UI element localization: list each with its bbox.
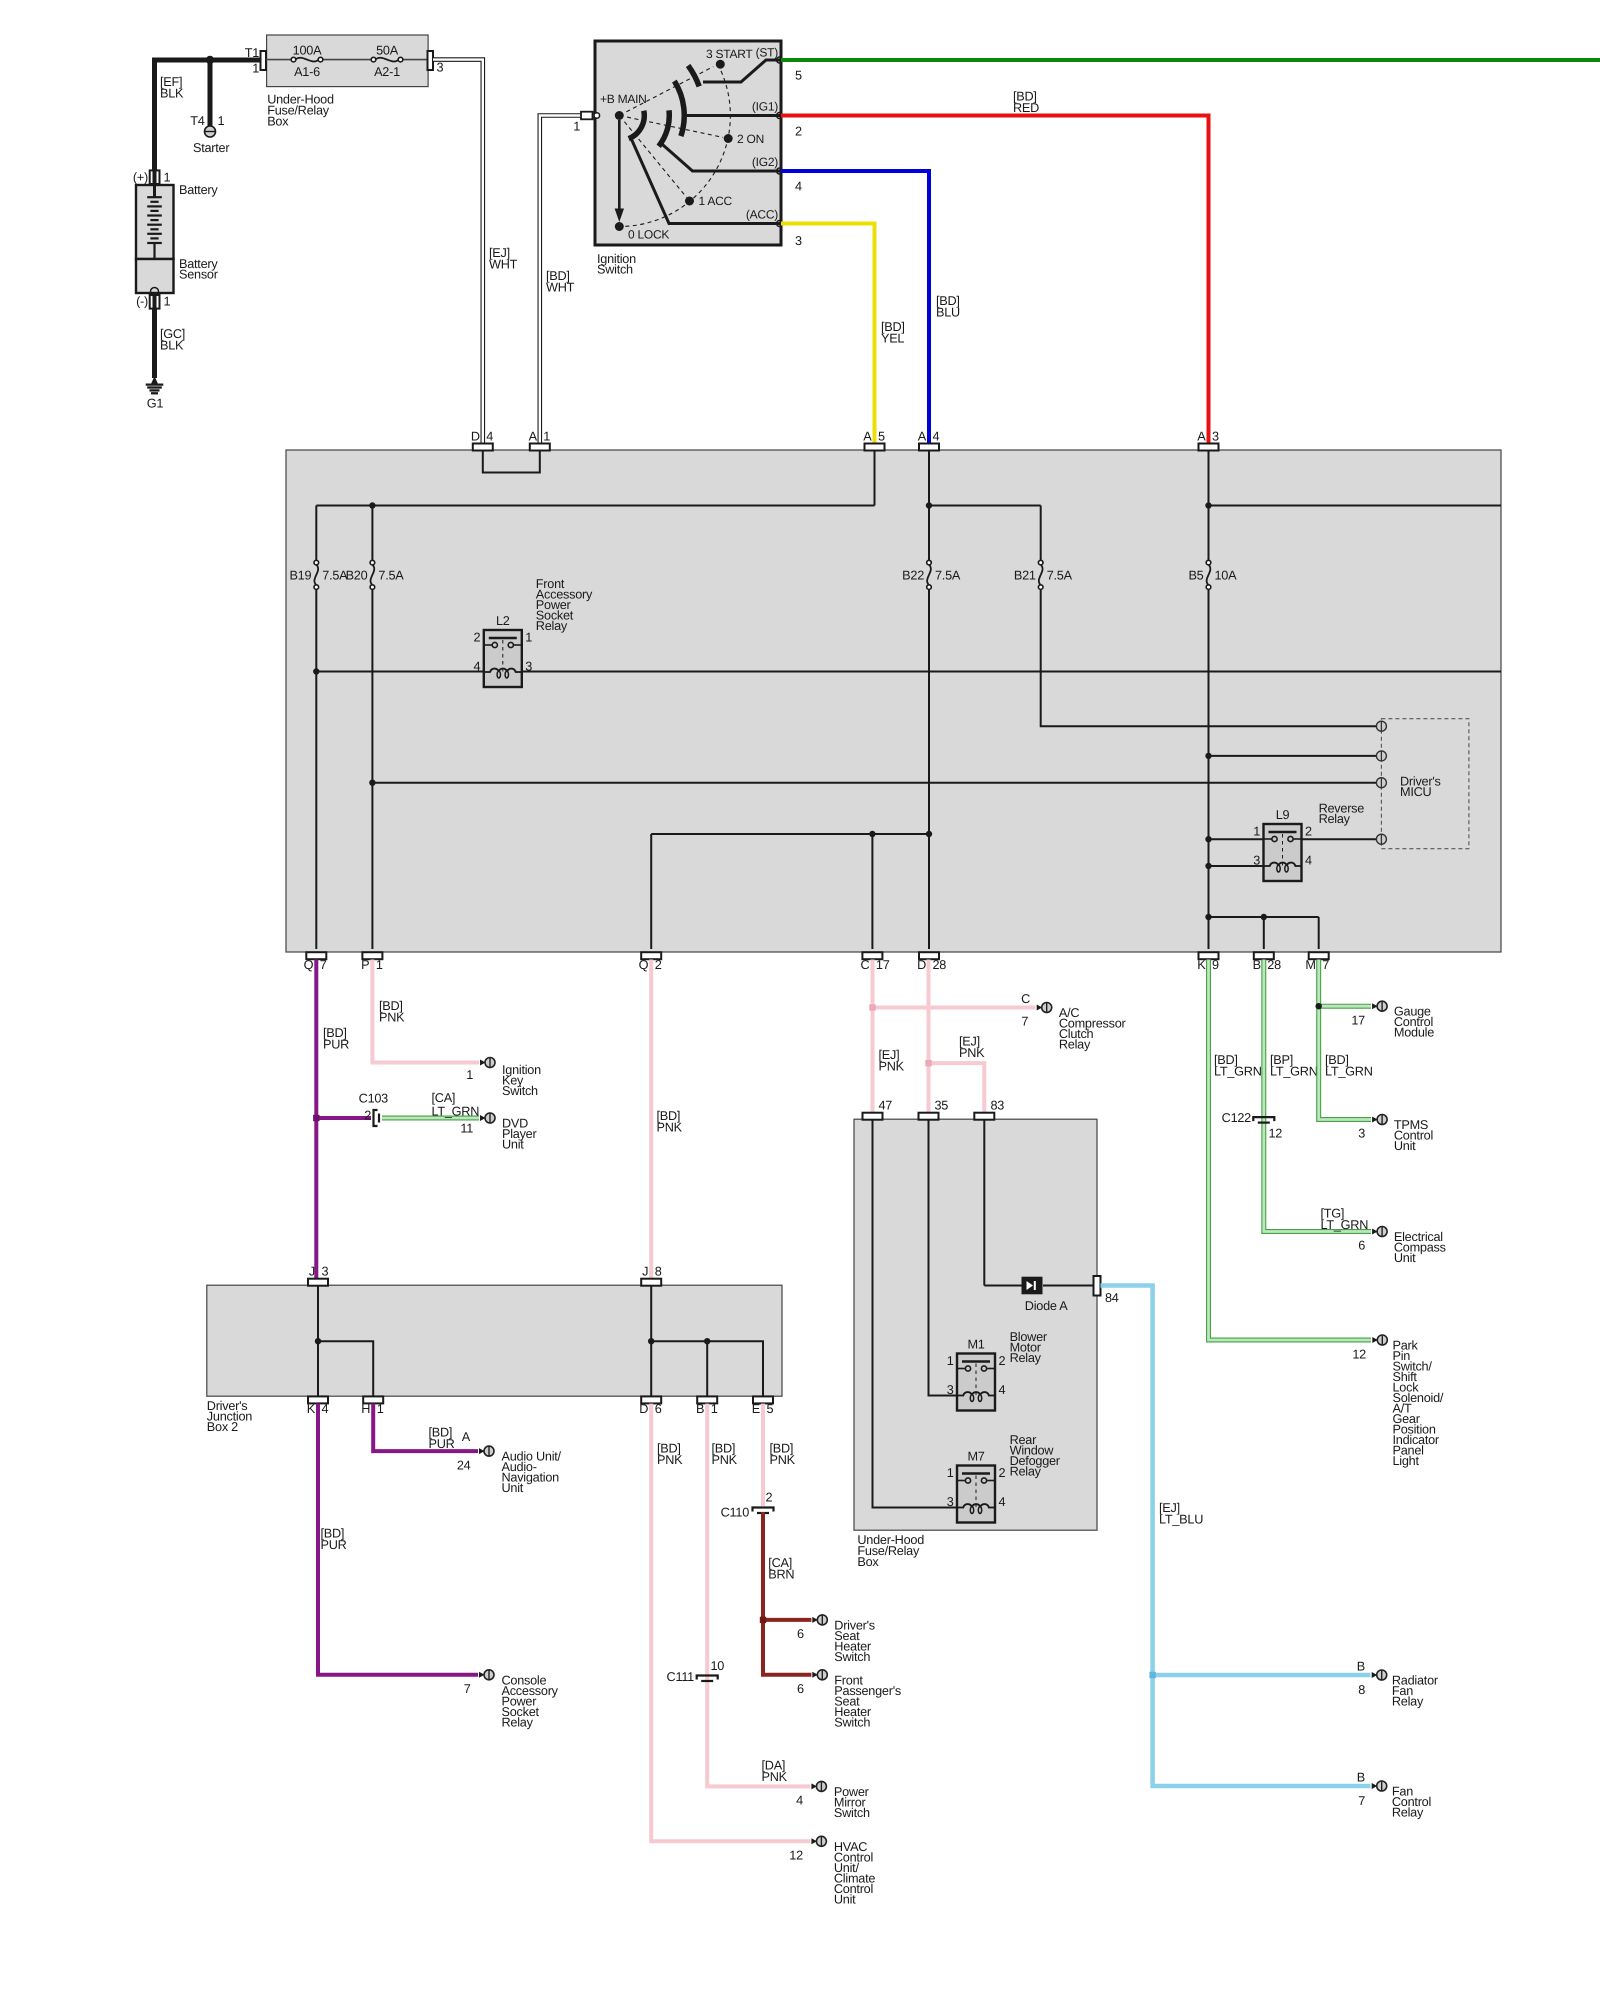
svg-text:(+): (+): [133, 171, 148, 185]
svg-text:5: 5: [795, 69, 802, 83]
svg-text:G1: G1: [147, 397, 164, 411]
svg-text:PNK: PNK: [762, 1770, 788, 1784]
connector B1: [697, 1396, 717, 1403]
wire [BD] PUR from Q7: [314, 960, 318, 1280]
svg-text:1: 1: [711, 1402, 718, 1416]
svg-text:3: 3: [1212, 430, 1219, 444]
svg-text:C110: C110: [721, 1506, 750, 1520]
wiper contact arcs: [629, 111, 645, 139]
svg-text:B: B: [1357, 1771, 1365, 1785]
svg-text:2: 2: [1305, 825, 1312, 839]
node T1 junction: [206, 56, 214, 64]
svg-text:C111: C111: [667, 1670, 695, 1684]
svg-text:7: 7: [1358, 1794, 1365, 1808]
svg-text:Relay: Relay: [536, 619, 568, 633]
fuse B21 7.5A: [1039, 565, 1043, 586]
svg-text:2: 2: [766, 1491, 773, 1505]
svg-text:7.5A: 7.5A: [935, 569, 961, 583]
position 1 ACC: [685, 197, 694, 206]
svg-text:PNK: PNK: [712, 1453, 738, 1467]
svg-text:PNK: PNK: [879, 1060, 905, 1074]
contact line IG2: [661, 143, 780, 171]
fuse B22 7.5A: [927, 565, 931, 586]
wire A5 drop: [874, 451, 876, 506]
connector E5: [753, 1396, 773, 1403]
svg-text:Relay: Relay: [1010, 1351, 1042, 1365]
svg-text:84: 84: [1105, 1291, 1119, 1305]
connector J3: [308, 1279, 328, 1286]
dashed radials: [626, 67, 713, 112]
svg-text:100A: 100A: [293, 44, 322, 58]
wire 83 to diode A: [983, 1120, 985, 1286]
under-hood fuse/relay box A (top): [267, 35, 429, 87]
connector pin 3: [428, 51, 434, 70]
relay M1 blower motor: [957, 1354, 995, 1411]
wire J8 to D6: [650, 1286, 652, 1396]
inline connector C122: [1253, 1117, 1274, 1121]
terminal DVD player unit: [480, 1115, 486, 1121]
wire B20 branch: [371, 506, 373, 561]
fuse B20 7.5A: [371, 565, 375, 586]
svg-text:3: 3: [322, 1265, 329, 1279]
wire [EJ] LT_BLU: [1101, 1286, 1371, 1787]
wire [BP] LT_GRN from B28: [1264, 960, 1371, 1232]
node A4 bus tap: [926, 502, 932, 508]
wire to B1: [706, 1341, 708, 1395]
svg-text:BLK: BLK: [160, 339, 184, 353]
wire [CA] BRN: [763, 1512, 811, 1675]
svg-text:2: 2: [999, 1354, 1006, 1368]
svg-text:Switch: Switch: [834, 1650, 870, 1664]
node B5 MICU tap: [1205, 753, 1211, 759]
wire [BD] PUR from K4 to console relay: [318, 1404, 478, 1675]
relay L2 front accessory power socket: [484, 630, 522, 687]
svg-text:1: 1: [573, 120, 580, 134]
wire A3 drop: [1208, 451, 1210, 560]
wire [BD] BLU pin 4: [781, 171, 929, 444]
svg-text:2 ON: 2 ON: [737, 132, 764, 146]
relay M7 rear window defogger: [957, 1466, 995, 1523]
connector 35: [919, 1113, 939, 1120]
svg-text:LT_GRN: LT_GRN: [1325, 1065, 1373, 1079]
svg-text:A2-1: A2-1: [374, 65, 400, 79]
connector T1: [261, 51, 267, 70]
svg-text:7: 7: [320, 958, 327, 972]
wire [BD] PNK from E5: [761, 1404, 765, 1506]
svg-text:PNK: PNK: [770, 1453, 796, 1467]
svg-text:T1: T1: [245, 46, 260, 60]
svg-text:4: 4: [999, 1383, 1006, 1397]
wire gauge control branch: [1319, 1004, 1371, 1009]
svg-text:4: 4: [933, 430, 940, 444]
svg-text:1: 1: [377, 1402, 384, 1416]
svg-text:Diode A: Diode A: [1025, 1299, 1068, 1313]
relay L9 reverse: [1264, 824, 1302, 881]
svg-text:Unit: Unit: [502, 1481, 524, 1495]
svg-text:2: 2: [795, 125, 802, 139]
svg-text:PNK: PNK: [657, 1453, 683, 1467]
svg-text:Unit: Unit: [1394, 1139, 1416, 1153]
wire battery positive feed: [155, 60, 261, 172]
svg-text:Switch: Switch: [597, 263, 633, 277]
wire J3 to K4: [317, 1286, 319, 1396]
wire B5 to MICU 2: [1209, 755, 1377, 757]
wire B5 bottom tap: [1209, 916, 1319, 918]
svg-text:8: 8: [1358, 1683, 1365, 1697]
node B1 tap: [704, 1338, 710, 1344]
fuse A2-1 50A: [376, 58, 399, 62]
svg-text:4: 4: [795, 180, 802, 194]
svg-text:LT_BLU: LT_BLU: [1159, 1513, 1203, 1527]
wire [GC] BLK to ground: [152, 309, 157, 378]
svg-text:35: 35: [935, 1099, 949, 1113]
wire to M7: [1318, 917, 1320, 949]
node J8 tap: [648, 1338, 654, 1344]
wire B5 to L9 pin 3: [1209, 865, 1264, 867]
svg-text:5: 5: [767, 1402, 774, 1416]
svg-text:(ST): (ST): [756, 46, 779, 60]
node A3 bus tap: [1205, 502, 1211, 508]
svg-text:83: 83: [991, 1099, 1005, 1113]
node B20 tap: [369, 502, 375, 508]
position 0 LOCK: [615, 222, 624, 231]
wire 47 to M7 relay pin 3: [873, 1120, 958, 1508]
svg-text:10A: 10A: [1215, 569, 1238, 583]
svg-text:Unit: Unit: [502, 1138, 524, 1152]
driver's MICU: [1381, 719, 1469, 849]
svg-text:D: D: [471, 430, 480, 444]
svg-text:Battery: Battery: [179, 183, 218, 197]
svg-text:M1: M1: [967, 1338, 984, 1352]
wire diode to 84: [1043, 1285, 1094, 1287]
connector A4: [919, 444, 939, 451]
interior fuse/relay box (middle): [286, 450, 1501, 952]
ignition switch input connector pin 1: [581, 112, 593, 120]
connector K4: [308, 1396, 328, 1403]
svg-text:1: 1: [466, 1068, 473, 1082]
wire to H1: [318, 1341, 373, 1395]
svg-text:B22: B22: [902, 569, 924, 583]
connector B28: [1254, 952, 1274, 959]
svg-text:Box: Box: [857, 1555, 879, 1569]
svg-text:Light: Light: [1393, 1454, 1420, 1468]
svg-text:C: C: [860, 958, 869, 972]
connector K9: [1199, 952, 1219, 959]
connector D28: [919, 952, 939, 959]
svg-text:Switch: Switch: [834, 1806, 870, 1820]
svg-text:Box 2: Box 2: [207, 1420, 238, 1434]
terminal TPMS control unit: [1372, 1117, 1378, 1123]
svg-text:50A: 50A: [376, 44, 399, 58]
svg-text:1: 1: [947, 1354, 954, 1368]
connector Q7: [306, 952, 326, 959]
connector D4: [473, 444, 493, 451]
svg-text:(-): (-): [136, 295, 148, 309]
svg-text:Relay: Relay: [1319, 812, 1351, 826]
terminal power mirror switch: [811, 1783, 817, 1789]
svg-text:1: 1: [543, 430, 550, 444]
wire [CA] LT_GRN to DVD: [382, 1116, 479, 1121]
svg-text:(IG1): (IG1): [752, 100, 778, 114]
wire B22 output bus: [651, 833, 929, 835]
svg-text:A1-6: A1-6: [294, 65, 320, 79]
svg-text:5: 5: [878, 430, 885, 444]
svg-text:17: 17: [1351, 1014, 1365, 1028]
svg-text:PUR: PUR: [429, 1437, 455, 1451]
svg-text:6: 6: [797, 1682, 804, 1696]
terminal park pin switch: [1372, 1337, 1378, 1343]
connector H1: [363, 1396, 383, 1403]
svg-text:M: M: [1305, 958, 1315, 972]
wire [BD] PNK from B1 to power mirror: [707, 1404, 810, 1787]
svg-text:Starter: Starter: [193, 141, 230, 155]
contact line ACC: [632, 140, 780, 224]
position 3 START: [716, 60, 725, 69]
svg-text:Unit: Unit: [1394, 1251, 1416, 1265]
svg-text:BRN: BRN: [768, 1568, 794, 1582]
svg-text:3: 3: [947, 1495, 954, 1509]
wire [EJ] PNK from D28: [927, 960, 931, 1114]
svg-text:3 START: 3 START: [706, 47, 753, 61]
svg-text:L2: L2: [496, 614, 510, 628]
svg-text:0 LOCK: 0 LOCK: [628, 228, 669, 242]
svg-text:A: A: [918, 430, 927, 444]
svg-text:Relay: Relay: [1059, 1038, 1091, 1052]
wire to B28: [1263, 917, 1265, 949]
wire to Q2: [650, 834, 652, 949]
svg-text:2: 2: [655, 958, 662, 972]
svg-text:PUR: PUR: [321, 1538, 347, 1552]
battery sensor: [136, 259, 174, 293]
svg-text:(ACC): (ACC): [746, 208, 778, 222]
wire [BD] PUR from H1 to audio: [373, 1404, 478, 1452]
terminal radiator fan relay: [1372, 1672, 1378, 1678]
svg-text:Q: Q: [639, 958, 649, 972]
wire [BD] YEL pin 3: [781, 224, 875, 445]
svg-text:Box: Box: [267, 115, 289, 129]
svg-text:WHT: WHT: [546, 281, 575, 295]
svg-text:LT_GRN: LT_GRN: [1321, 1218, 1369, 1232]
svg-text:PNK: PNK: [657, 1121, 683, 1135]
svg-text:PNK: PNK: [959, 1046, 985, 1060]
svg-text:3: 3: [1358, 1127, 1365, 1141]
wire green ST pin 5: [781, 58, 1600, 62]
ground G1: [151, 376, 158, 384]
node J3 tap: [315, 1338, 321, 1344]
wire B5 to L9 pin 1: [1209, 838, 1264, 840]
wire [BD] PNK from Q2: [649, 960, 653, 1280]
svg-text:B20: B20: [346, 569, 368, 583]
svg-text:8: 8: [655, 1265, 662, 1279]
svg-text:MICU: MICU: [1400, 785, 1432, 799]
node B20 MICU tap: [369, 780, 375, 786]
wire [BD] PNK from D6 to HVAC: [651, 1404, 810, 1842]
terminal A/C compressor clutch relay: [1037, 1005, 1043, 1011]
battery: [136, 185, 174, 259]
svg-text:BLK: BLK: [160, 87, 184, 101]
inline connector C111: [697, 1676, 718, 1680]
svg-text:C103: C103: [359, 1092, 389, 1106]
node C103 tap: [316, 1116, 371, 1120]
svg-text:B21: B21: [1014, 569, 1036, 583]
svg-text:LT_GRN: LT_GRN: [1214, 1065, 1262, 1079]
svg-text:(IG2): (IG2): [752, 155, 778, 169]
under-hood fuse/relay box B (bottom): [854, 1119, 1097, 1530]
svg-text:K: K: [307, 1402, 316, 1416]
svg-text:BLU: BLU: [936, 306, 960, 320]
svg-text:10: 10: [711, 1659, 725, 1673]
wire B20 to MICU: [372, 782, 1376, 784]
diode A: [1022, 1277, 1042, 1294]
wire [BD] PNK from P1: [372, 960, 479, 1063]
wire [BD] RED pin 2: [781, 116, 1209, 445]
terminal HVAC control unit: [811, 1838, 817, 1844]
svg-text:7.5A: 7.5A: [322, 569, 348, 583]
svg-text:D: D: [639, 1402, 648, 1416]
fuse A1-6 100A: [296, 58, 319, 62]
svg-text:YEL: YEL: [881, 332, 904, 346]
node B19 coil tap: [313, 668, 319, 674]
svg-text:PUR: PUR: [323, 1038, 349, 1052]
dashed position arc: [619, 64, 730, 226]
arrow to 0 LOCK: [618, 120, 621, 209]
svg-text:Sensor: Sensor: [179, 268, 219, 282]
wire A/C compressor branch: [873, 1006, 1036, 1010]
driver's junction box 2: [207, 1285, 782, 1396]
svg-text:7.5A: 7.5A: [1047, 569, 1073, 583]
fuse B19 7.5A: [314, 565, 318, 586]
svg-text:17: 17: [876, 958, 890, 972]
wire A4 drop: [928, 451, 930, 560]
connector 83: [974, 1113, 994, 1120]
svg-text:C122: C122: [1222, 1111, 1252, 1125]
connector C17: [862, 952, 882, 959]
wire D28 to 83 branch: [929, 1063, 985, 1113]
svg-text:1 ACC: 1 ACC: [699, 194, 733, 208]
svg-text:12: 12: [1352, 1348, 1366, 1362]
terminal fan control relay: [1372, 1783, 1378, 1789]
connector Q2: [641, 952, 661, 959]
svg-text:4: 4: [999, 1495, 1006, 1509]
wire to E5: [651, 1341, 763, 1395]
svg-text:C: C: [1021, 992, 1030, 1006]
ignition switch: [595, 41, 781, 245]
wire D4-A1 jumper: [483, 451, 540, 473]
svg-text:B: B: [1253, 958, 1261, 972]
svg-text:12: 12: [1269, 1127, 1283, 1141]
connector J8: [641, 1279, 661, 1286]
wire B21 branch: [1040, 506, 1042, 561]
svg-text:LT_GRN: LT_GRN: [1270, 1065, 1318, 1079]
wire [EJ] PNK from C17: [871, 960, 875, 1114]
wire starter stub: [208, 60, 213, 126]
wire [BD] LT_GRN from M7 to TPMS: [1319, 960, 1371, 1120]
svg-text:Q: Q: [304, 958, 314, 972]
svg-text:7.5A: 7.5A: [378, 569, 404, 583]
svg-text:3: 3: [437, 61, 444, 75]
wire [EJ] WHT: [433, 60, 483, 445]
svg-text:[CA]: [CA]: [432, 1091, 456, 1105]
svg-text:3: 3: [947, 1383, 954, 1397]
wire L9 pin 2 to MICU 4: [1302, 838, 1377, 840]
svg-text:3: 3: [1253, 854, 1260, 868]
wire 35 to M1 relay pin 3: [929, 1120, 958, 1396]
svg-text:B5: B5: [1188, 569, 1203, 583]
svg-text:6: 6: [655, 1402, 662, 1416]
svg-text:1: 1: [376, 958, 383, 972]
svg-text:D: D: [917, 958, 926, 972]
terminal ignition key switch: [480, 1060, 486, 1066]
svg-text:24: 24: [457, 1459, 471, 1473]
svg-text:4: 4: [486, 430, 493, 444]
inline connector C103: [374, 1110, 378, 1126]
svg-text:A: A: [462, 1430, 471, 1444]
svg-text:11: 11: [460, 1122, 473, 1136]
wire driver's seat heater branch: [763, 1618, 811, 1622]
svg-text:J: J: [642, 1265, 648, 1279]
wire relay L2 coil line: [316, 671, 1501, 673]
wire bus ACC: [316, 505, 874, 507]
svg-text:B19: B19: [289, 569, 311, 583]
svg-text:L9: L9: [1276, 808, 1290, 822]
svg-text:6: 6: [797, 1627, 804, 1641]
terminal driver's seat heater switch: [812, 1617, 818, 1623]
svg-text:A: A: [863, 430, 872, 444]
svg-text:4: 4: [473, 660, 480, 674]
svg-text:1: 1: [947, 1466, 954, 1480]
wire [BD] LT_GRN from K9 to park pin switch: [1209, 960, 1372, 1341]
wire [BD] WHT: [540, 116, 581, 445]
svg-text:1: 1: [164, 171, 171, 185]
svg-text:9: 9: [1212, 958, 1219, 972]
svg-text:3: 3: [795, 234, 802, 248]
svg-text:J: J: [309, 1265, 315, 1279]
svg-text:K: K: [1197, 958, 1206, 972]
svg-text:1: 1: [1253, 825, 1260, 839]
svg-text:H: H: [361, 1402, 370, 1416]
svg-text:LT_GRN: LT_GRN: [432, 1105, 480, 1119]
svg-text:1: 1: [525, 631, 532, 645]
connector 47: [863, 1113, 883, 1120]
svg-text:2: 2: [999, 1466, 1006, 1480]
svg-text:Unit: Unit: [834, 1892, 856, 1906]
svg-text:B: B: [1357, 1660, 1365, 1674]
svg-text:T4: T4: [190, 114, 205, 128]
svg-text:1: 1: [218, 114, 225, 128]
contact line ST: [703, 60, 780, 82]
position 2 ON: [724, 134, 733, 143]
fuse B5 10A: [1207, 565, 1211, 586]
contact line IG1: [687, 114, 780, 117]
svg-text:Module: Module: [1394, 1026, 1434, 1040]
wire to C17: [871, 834, 873, 949]
connector A1: [530, 444, 550, 451]
terminal console accessory power socket relay: [479, 1672, 485, 1678]
svg-text:Switch: Switch: [834, 1715, 870, 1729]
svg-text:Relay: Relay: [1392, 1695, 1424, 1709]
connector P1: [362, 952, 382, 959]
connector M7: [1309, 952, 1329, 959]
svg-text:M7: M7: [967, 1450, 984, 1464]
svg-text:7: 7: [464, 1682, 471, 1696]
svg-text:28: 28: [1267, 958, 1281, 972]
connector A3: [1199, 444, 1219, 451]
inline connector C110: [753, 1508, 774, 1512]
svg-text:A: A: [529, 430, 538, 444]
terminal front passenger's seat heater switch: [812, 1672, 818, 1678]
wire radiator fan branch: [1153, 1673, 1371, 1678]
svg-text:Relay: Relay: [1010, 1465, 1042, 1479]
